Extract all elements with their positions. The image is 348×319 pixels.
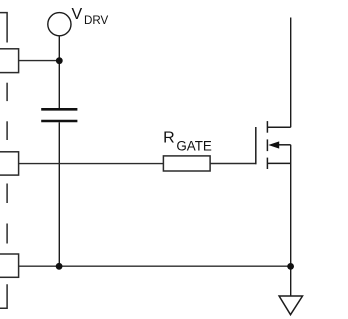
resistor R_GATE bbox=[163, 156, 210, 171]
junction node VDRV bbox=[56, 57, 63, 64]
channel segment middle bbox=[266, 139, 268, 151]
capacitor C1 (bypass) bbox=[41, 109, 77, 121]
ground symbol bbox=[279, 296, 302, 315]
pin box P3 (ground pin) bbox=[0, 254, 19, 277]
svg-text:R: R bbox=[163, 130, 175, 147]
ground rail wire bbox=[19, 265, 291, 267]
channel segment bottom bbox=[266, 158, 268, 169]
svg-text:V: V bbox=[72, 6, 83, 23]
body arrowhead bbox=[268, 141, 279, 148]
pin box P2 (gate drive output pin) bbox=[0, 152, 19, 175]
wire drain up bbox=[290, 18, 292, 128]
IC boundary dashed edge bbox=[0, 13, 7, 309]
svg-text:DRV: DRV bbox=[84, 14, 109, 27]
channel segment top bbox=[266, 121, 268, 133]
junction node source/ground rail bbox=[287, 263, 294, 270]
wire resistor to MOSFET gate bbox=[210, 163, 256, 165]
source stub bbox=[267, 162, 290, 164]
svg-text:GATE: GATE bbox=[176, 138, 212, 153]
voltage source V_DRV circle bbox=[48, 13, 71, 36]
wire VDRV circle down to capacitor bbox=[58, 36, 60, 108]
label V_DRV bbox=[72, 6, 109, 27]
junction node cap/ground rail bbox=[56, 263, 63, 270]
label R_GATE bbox=[163, 130, 212, 154]
wire P1 to VDRV node bbox=[19, 60, 60, 62]
wire capacitor bottom to ground rail bbox=[58, 122, 60, 266]
gate bar bbox=[255, 127, 257, 164]
body arrow line bbox=[279, 144, 291, 146]
pin box P1 (VDRV pin) bbox=[0, 49, 19, 73]
wire source down to ground bbox=[290, 145, 292, 296]
transistor Q1 (N-channel MOSFET) bbox=[256, 121, 291, 169]
wire P2 to resistor (gate drive) bbox=[19, 163, 164, 165]
drain stub bbox=[267, 126, 290, 128]
